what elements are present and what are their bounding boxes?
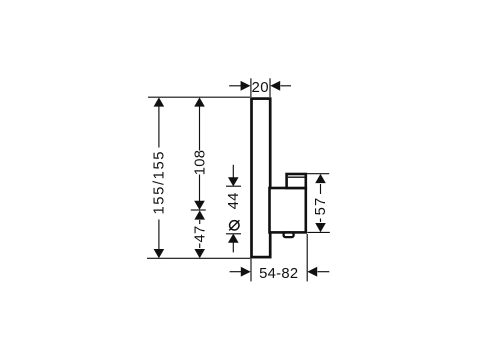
dimension 54-82 right arrow — [307, 267, 329, 277]
extension line 54-82 right — [306, 234, 308, 281]
extension line 54-82 left — [250, 259, 252, 282]
svg-text:47: 47 — [193, 225, 209, 242]
dimension 20 left arrow — [229, 81, 250, 91]
extension line 57 bottom — [307, 231, 330, 233]
dimension 57 line — [315, 174, 326, 232]
handle cap — [287, 174, 306, 188]
svg-text:54-82: 54-82 — [259, 266, 298, 282]
dimension 47 line — [194, 210, 205, 258]
svg-text:57: 57 — [313, 197, 329, 216]
extension line bottom-left (plate bottom) — [147, 257, 250, 259]
dimension 20 right arrow — [270, 81, 291, 91]
extension line top-left (plate top) — [148, 96, 250, 98]
dimension 108 line — [194, 97, 205, 209]
svg-text:155/155: 155/155 — [152, 150, 168, 215]
tick between 108 and 47 — [191, 209, 206, 211]
wall plate (side view) — [252, 99, 271, 258]
thermostat body — [270, 188, 306, 232]
extension line 20 left — [250, 78, 252, 97]
handle cap inner line — [288, 176, 305, 178]
extension line 57 top — [307, 173, 330, 175]
dimension Ø44 arrows — [228, 165, 239, 253]
dimension 155/155 line — [154, 97, 165, 258]
dimension 54-82 left arrow — [230, 267, 251, 277]
bottom tab — [284, 232, 294, 237]
svg-text:44: 44 — [226, 192, 242, 209]
label Ø symbol — [229, 220, 239, 230]
svg-text:20: 20 — [252, 79, 270, 96]
svg-text:108: 108 — [193, 150, 209, 176]
dimension Ø44 ticks — [226, 185, 241, 187]
extension line 20 right — [269, 78, 271, 97]
